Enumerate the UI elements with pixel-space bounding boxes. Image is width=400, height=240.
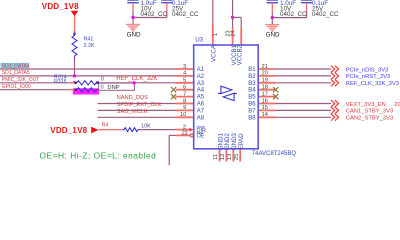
svg-text:A7: A7	[197, 108, 205, 114]
svg-text:B3: B3	[248, 81, 256, 87]
svg-text:4: 4	[183, 71, 186, 77]
svg-text:18: 18	[262, 85, 268, 91]
svg-text:15: 15	[262, 105, 268, 111]
svg-text:NAND_DQS: NAND_DQS	[117, 95, 148, 101]
svg-text:EPAD: EPAD	[238, 133, 245, 150]
svg-text:GPIO1_IO00: GPIO1_IO00	[2, 84, 31, 90]
svg-text:A4: A4	[197, 88, 205, 94]
svg-text:R4: R4	[102, 122, 109, 128]
svg-text:OE: OE	[197, 134, 205, 140]
svg-text:14: 14	[262, 112, 268, 118]
svg-text:A6: A6	[197, 102, 205, 108]
svg-text:U3: U3	[195, 36, 203, 43]
svg-text:6: 6	[183, 85, 186, 91]
svg-text:SAI2_MCLK: SAI2_MCLK	[117, 109, 148, 115]
svg-text:SD1_DATA5: SD1_DATA5	[2, 70, 30, 76]
svg-text:0402_CC: 0402_CC	[280, 11, 307, 18]
svg-text:16: 16	[262, 98, 268, 104]
svg-text:2.2K: 2.2K	[84, 43, 95, 49]
svg-text:A8: A8	[197, 115, 205, 121]
svg-text:VDD_1V8: VDD_1V8	[42, 2, 79, 11]
svg-text:0402_CC: 0402_CC	[172, 11, 199, 18]
svg-text:1: 1	[213, 33, 219, 36]
svg-text:24: 24	[230, 30, 236, 36]
svg-text:A1: A1	[197, 67, 205, 73]
svg-text:VEXT_3V3_EN: VEXT_3V3_EN	[346, 102, 386, 108]
svg-text:13: 13	[227, 154, 233, 160]
svg-text:74AVC8T245BQ: 74AVC8T245BQ	[252, 151, 297, 157]
svg-text:A3: A3	[197, 81, 205, 87]
svg-text:SD1_DATA4: SD1_DATA4	[2, 63, 30, 69]
svg-text:CAN2_STBY_3V3: CAN2_STBY_3V3	[346, 116, 393, 122]
svg-text:B7: B7	[248, 108, 256, 114]
svg-text:21: 21	[262, 64, 268, 70]
svg-text:22: 22	[182, 130, 188, 136]
svg-text:25: 25	[234, 154, 240, 160]
svg-text:PCIe_nRST_3V3: PCIe_nRST_3V3	[346, 74, 390, 80]
svg-text:11: 11	[213, 154, 219, 160]
svg-text:GND: GND	[266, 32, 280, 39]
svg-text:0: 0	[101, 77, 104, 83]
svg-text:PCIe_nDIS_3V3: PCIe_nDIS_3V3	[346, 67, 389, 73]
svg-text:B1: B1	[248, 67, 256, 73]
svg-text:B2: B2	[248, 74, 256, 80]
svg-text:B6: B6	[248, 102, 256, 108]
svg-text:9: 9	[183, 105, 186, 111]
svg-text:20: 20	[394, 102, 400, 108]
svg-text:10: 10	[180, 112, 186, 118]
svg-text:OE=H: Hi-Z; OE=L: enabled: OE=H: Hi-Z; OE=L: enabled	[40, 150, 157, 160]
svg-text:10K: 10K	[141, 124, 151, 130]
svg-text:DNP: DNP	[107, 85, 119, 91]
svg-text:R315: R315	[54, 79, 67, 85]
svg-text:GND: GND	[127, 32, 141, 39]
svg-text:19: 19	[262, 78, 268, 84]
svg-text:CAN1_STBY_3V3: CAN1_STBY_3V3	[346, 109, 393, 115]
svg-text:SPDIF_EXT_CLK: SPDIF_EXT_CLK	[117, 102, 162, 108]
svg-text:REF_CLK_32K_3V3: REF_CLK_32K_3V3	[346, 81, 399, 87]
svg-text:R41: R41	[84, 37, 94, 43]
svg-text:B8: B8	[248, 115, 256, 121]
svg-text:B4: B4	[248, 88, 256, 94]
svg-text:17: 17	[262, 91, 268, 97]
svg-text:VDD_1V8: VDD_1V8	[50, 126, 87, 135]
svg-text:0402_CC: 0402_CC	[141, 11, 168, 18]
svg-text:8: 8	[183, 98, 186, 104]
svg-text:VCCA: VCCA	[211, 44, 218, 62]
svg-text:3: 3	[183, 64, 186, 70]
svg-text:VCCB2: VCCB2	[236, 44, 243, 65]
svg-text:20: 20	[262, 71, 268, 77]
svg-text:5: 5	[183, 78, 186, 84]
svg-text:0402_CC: 0402_CC	[312, 11, 339, 18]
svg-text:PMIC_32K_OUT: PMIC_32K_OUT	[2, 77, 40, 83]
svg-text:7: 7	[183, 91, 186, 97]
svg-text:12: 12	[220, 154, 226, 160]
svg-text:REF_CLK_32K: REF_CLK_32K	[116, 76, 157, 82]
svg-text:A5: A5	[197, 95, 205, 101]
svg-text:B5: B5	[248, 95, 256, 101]
svg-text:A2: A2	[197, 74, 205, 80]
svg-text:0: 0	[101, 85, 104, 91]
